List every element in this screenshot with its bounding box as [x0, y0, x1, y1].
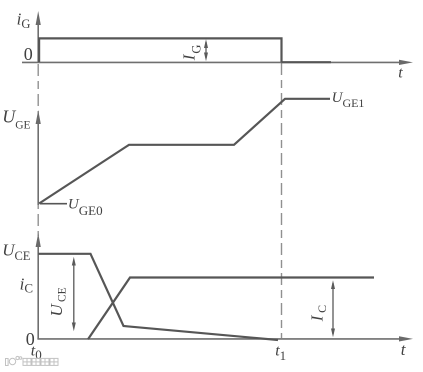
iG vertical axis	[36, 11, 41, 62]
IG amplitude measure arrow	[204, 39, 208, 61]
node t1 dashed vertical line	[281, 63, 283, 338]
svg-text:G: G	[190, 45, 204, 54]
svg-text:UCE: UCE	[2, 240, 31, 262]
svg-text:U: U	[47, 303, 66, 317]
watermark bottom-left	[6, 356, 59, 365]
UGE gate voltage waveform	[39, 99, 330, 204]
iG zero level after pulse	[282, 61, 332, 63]
IC amplitude value label (rotated)	[307, 305, 329, 322]
svg-text:0: 0	[24, 44, 33, 64]
svg-text:CE: CE	[56, 287, 68, 302]
UCE amplitude value label (rotated)	[47, 287, 68, 316]
UCE/iC horizontal time axis	[37, 336, 413, 341]
IC amplitude measure arrow	[331, 280, 335, 337]
svg-text:UGE1: UGE1	[332, 90, 365, 110]
iG gate current pulse waveform	[39, 38, 281, 62]
UCE vertical axis	[36, 233, 41, 339]
svg-text:t: t	[398, 64, 403, 81]
svg-text:C: C	[315, 305, 329, 313]
svg-text:UGE: UGE	[2, 106, 30, 131]
IG amplitude value label (rotated)	[179, 45, 203, 62]
iG horizontal time axis	[22, 60, 413, 65]
UGE0 leader line	[40, 203, 67, 205]
svg-text:iG: iG	[17, 10, 31, 31]
svg-text:iC: iC	[20, 274, 33, 295]
node t0 dashed vertical line	[37, 64, 39, 236]
svg-text:t: t	[401, 340, 407, 359]
svg-text:UGE0: UGE0	[68, 197, 103, 219]
UGE vertical axis	[36, 110, 41, 205]
svg-text:t1: t1	[275, 342, 286, 363]
UCE collector voltage waveform	[38, 254, 278, 340]
svg-text:I: I	[307, 314, 326, 322]
UCE amplitude measure arrow	[72, 257, 76, 331]
iC collector current waveform	[88, 278, 374, 340]
